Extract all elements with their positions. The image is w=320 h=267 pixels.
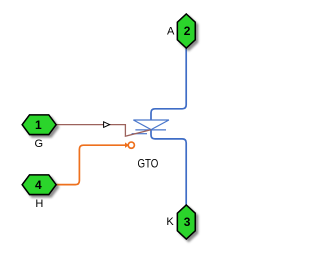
svg-text:3: 3 [184,215,191,229]
label G [35,138,44,150]
label GTO (block name) [137,157,158,171]
port 4 (H) connection port hexagon [22,175,56,195]
port 3 (K) connection port hexagon [177,205,195,239]
wire K: GTO cathode to port 3 (blue) [151,130,186,206]
port 4 number label [35,178,42,192]
svg-text:K: K [166,216,174,228]
label A [167,26,175,38]
GTO thyristor icon: cathode bar [135,129,166,131]
svg-text:4: 4 [35,178,42,192]
unconnected end open circle (orange) [128,142,134,148]
port 1 (G) connection port hexagon [22,115,56,135]
port 2 number label [184,24,191,38]
label H [35,198,43,210]
wire A: port 2 to GTO anode (blue) [151,48,186,120]
wire H: port 4, unconnected physical signal (orange) [56,145,125,184]
signal direction arrow on gate wire [104,122,110,128]
wire G: port 1 to GTO gate (dark red) [56,125,151,137]
svg-text:2: 2 [184,24,191,38]
svg-text:H: H [35,198,43,210]
GTO thyristor icon: gate bar [132,133,147,135]
port 2 (A) connection port hexagon [177,14,195,48]
svg-text:A: A [167,26,175,38]
svg-text:G: G [35,138,44,150]
label K [166,216,174,228]
GTO thyristor icon: triangle (anode-cathode) [133,120,169,130]
svg-text:1: 1 [35,118,42,132]
port 1 number label [35,118,42,132]
unconnected end arrowhead (orange) [125,142,129,148]
port 3 number label [184,215,191,229]
svg-text:GTO: GTO [137,157,158,171]
